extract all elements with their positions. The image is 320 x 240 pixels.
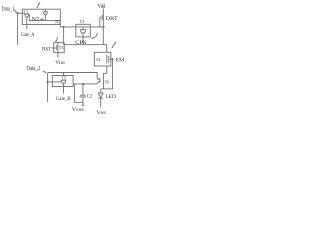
wire Vdd rail bbox=[102, 8, 104, 44]
sub-circuit box 1 (top) bbox=[22, 9, 60, 24]
wire DRT gate connection bbox=[99, 17, 101, 27]
wire Data_2 to T5 bbox=[48, 81, 62, 83]
wire lower horizontal bbox=[64, 44, 104, 46]
svg-text:T4: T4 bbox=[96, 57, 102, 62]
transistor T1 bbox=[24, 13, 29, 15]
transistor T3 bbox=[55, 45, 57, 50]
capacitor C2 bbox=[82, 84, 84, 95]
wire long gate line bbox=[48, 73, 100, 80]
node junction dot Data_1 bbox=[17, 12, 19, 14]
wire Data_1 to T1 bbox=[18, 12, 25, 14]
transistor T4 bbox=[106, 55, 108, 64]
capacitor CPS bbox=[82, 27, 84, 30]
wire rail jog to T4 bbox=[103, 45, 106, 53]
node junction dot N1-right bbox=[102, 26, 104, 28]
svg-text:Gate_B: Gate_B bbox=[56, 96, 71, 102]
svg-text:Gate_A: Gate_A bbox=[21, 32, 35, 38]
wire EM to gate with arrow bbox=[111, 58, 113, 60]
wire EM down bbox=[112, 59, 114, 89]
pointer arrow 2 bbox=[92, 33, 97, 38]
wire Data_2 vertical bbox=[47, 73, 49, 102]
wire rail below T4 bbox=[104, 66, 107, 89]
transistor T6 gate bar bbox=[99, 78, 101, 83]
pointer arrow (top) bbox=[37, 3, 40, 8]
sub-circuit box CPS bbox=[76, 24, 91, 37]
wire Gate_B side branch bbox=[74, 84, 83, 102]
capacitor C1 (in box) bbox=[44, 9, 46, 11]
svg-text:Vcss: Vcss bbox=[72, 107, 84, 113]
pointer arrow 3 bbox=[56, 37, 58, 41]
wire Data_2 leader arrow bbox=[43, 71, 46, 73]
svg-text:N2: N2 bbox=[32, 18, 40, 23]
pointer arrow 4 bbox=[113, 42, 116, 47]
node junction dot EM bbox=[112, 58, 114, 60]
svg-text:Data_2: Data_2 bbox=[26, 66, 40, 72]
svg-text:Vdd: Vdd bbox=[98, 4, 106, 10]
wire T5 drain to T6 gate bbox=[73, 82, 100, 84]
svg-text:Vss: Vss bbox=[96, 110, 105, 116]
sub-circuit box 3 (T3) bbox=[54, 43, 64, 53]
sub-circuit box 4 (T4) bbox=[94, 52, 111, 66]
svg-text:Vini: Vini bbox=[55, 60, 65, 66]
wire data bus vertical bbox=[17, 13, 19, 45]
wire left drop bbox=[63, 27, 65, 45]
wire Data_1 leader arrow bbox=[14, 10, 17, 12]
node junction dot N1-left bbox=[63, 26, 65, 28]
transistor DRT gate bar bbox=[101, 15, 103, 20]
svg-text:C2: C2 bbox=[87, 94, 93, 99]
svg-text:T3: T3 bbox=[59, 45, 64, 50]
svg-text:EM: EM bbox=[116, 57, 125, 63]
svg-text:T2: T2 bbox=[80, 19, 85, 24]
svg-text:T6: T6 bbox=[105, 79, 110, 84]
wire N2 arrow bbox=[40, 18, 43, 20]
wire node N2 horizontal bbox=[29, 20, 60, 22]
svg-text:LED: LED bbox=[106, 94, 116, 100]
node junction dot C2 bbox=[82, 83, 84, 85]
svg-text:RST: RST bbox=[42, 47, 52, 53]
svg-text:N1: N1 bbox=[55, 21, 60, 26]
svg-text:DRT: DRT bbox=[105, 16, 118, 22]
wire LED node line bbox=[101, 88, 113, 90]
node junction dot Data_2 bbox=[47, 81, 49, 83]
wire N1 net bbox=[60, 25, 105, 27]
svg-text:Data_1: Data_1 bbox=[2, 7, 15, 13]
diode LED bbox=[98, 93, 103, 98]
transistor T5 bbox=[61, 79, 67, 81]
svg-text:CPS: CPS bbox=[75, 40, 86, 46]
wire LED stem bbox=[100, 89, 102, 93]
sub-circuit box 5 (T5) bbox=[52, 76, 73, 87]
wire RST to T3 gate bbox=[52, 47, 55, 49]
